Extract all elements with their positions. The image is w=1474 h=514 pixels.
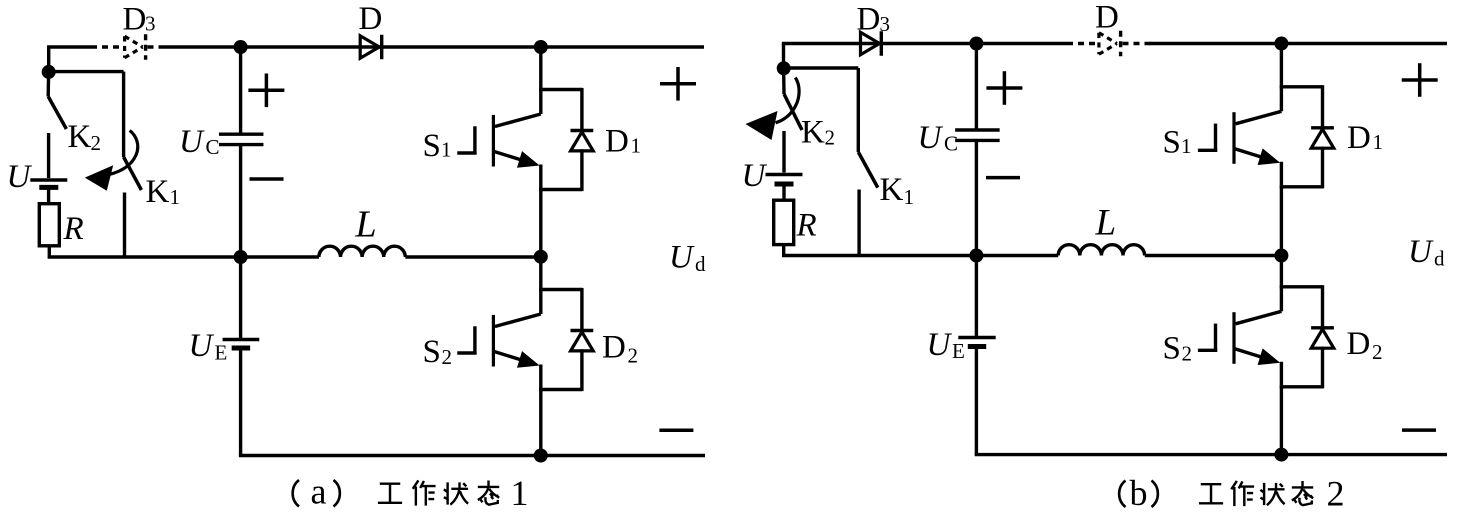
svg-text:1: 1 (1181, 134, 1192, 158)
svg-text:1: 1 (904, 185, 915, 209)
svg-text:1: 1 (1373, 130, 1384, 154)
svg-text:2: 2 (1372, 340, 1383, 364)
svg-text:K: K (801, 115, 825, 151)
svg-text:D: D (1347, 326, 1371, 362)
svg-text:U: U (742, 158, 768, 194)
svg-text:K: K (146, 174, 170, 210)
svg-text:D: D (123, 2, 147, 38)
svg-text:C: C (944, 132, 958, 156)
svg-text:K: K (68, 119, 92, 155)
svg-text:D: D (1347, 120, 1371, 156)
svg-text:R: R (63, 211, 84, 247)
svg-text:2: 2 (825, 126, 836, 150)
svg-text:2: 2 (91, 131, 102, 155)
svg-text:U: U (7, 159, 33, 195)
svg-text:L: L (355, 204, 377, 246)
svg-text:D: D (857, 2, 881, 38)
svg-text:S: S (1163, 331, 1181, 367)
svg-text:S: S (423, 128, 441, 164)
svg-text:2: 2 (1182, 342, 1193, 366)
svg-text:R: R (796, 207, 817, 243)
svg-text:d: d (695, 252, 706, 276)
svg-text:S: S (423, 334, 441, 370)
svg-text:b: b (1130, 473, 1148, 513)
svg-text:L: L (1095, 203, 1117, 244)
svg-text:1: 1 (631, 134, 642, 158)
svg-text:D: D (602, 330, 626, 366)
svg-text:U: U (669, 239, 695, 275)
svg-text:D: D (605, 124, 629, 160)
svg-text:U: U (927, 327, 953, 363)
svg-text:U: U (1408, 234, 1434, 270)
svg-text:D: D (1095, 0, 1119, 36)
svg-text:E: E (952, 339, 965, 363)
svg-text:U: U (179, 124, 205, 160)
svg-text:2: 2 (628, 344, 639, 368)
svg-text:a: a (311, 472, 327, 512)
svg-text:D: D (359, 1, 383, 37)
svg-text:S: S (1163, 125, 1181, 161)
svg-text:d: d (1434, 247, 1445, 271)
svg-text:E: E (215, 341, 228, 365)
svg-text:3: 3 (880, 12, 891, 36)
svg-text:2: 2 (1327, 474, 1345, 514)
svg-text:K: K (880, 172, 904, 208)
svg-text:3: 3 (145, 12, 156, 36)
svg-text:1: 1 (170, 185, 181, 209)
svg-text:2: 2 (442, 345, 453, 369)
svg-text:C: C (206, 135, 220, 159)
svg-text:U: U (918, 120, 944, 156)
svg-text:1: 1 (511, 473, 529, 513)
svg-text:U: U (189, 328, 215, 364)
svg-text:1: 1 (441, 138, 452, 162)
